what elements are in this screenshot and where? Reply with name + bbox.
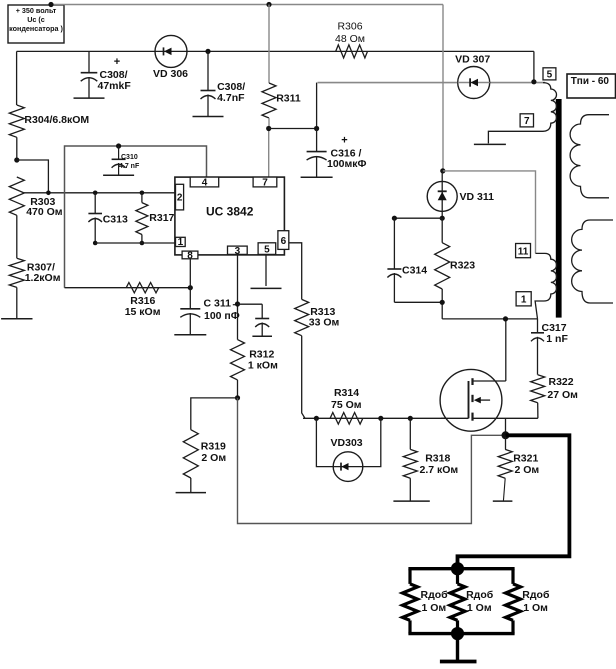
capacitor C316/100мкФ [301, 129, 367, 178]
svg-text:R312: R312 [249, 348, 274, 360]
svg-text:6: 6 [281, 236, 287, 247]
wire IC pin 8 drop [189, 259, 191, 288]
wire thick source to shunt [458, 435, 570, 568]
svg-text:C313: C313 [103, 213, 128, 225]
svg-text:4: 4 [202, 178, 208, 189]
resistor R312 [231, 340, 279, 398]
svg-text:R319: R319 [201, 441, 226, 453]
transformer winding 11-1 [535, 253, 557, 319]
svg-text:R323: R323 [450, 260, 475, 272]
transformer core [556, 99, 562, 318]
svg-text:R304/6.8кОМ: R304/6.8кОМ [24, 114, 89, 126]
node junction pin 8 / C311 [188, 285, 193, 290]
capacitor C317 [531, 319, 568, 375]
ground R318 [393, 500, 429, 502]
svg-text:VD 306: VD 306 [153, 68, 188, 80]
svg-text:Тпи - 60: Тпи - 60 [571, 76, 610, 87]
transistor MOSFET VT [440, 369, 538, 431]
wire current sense loop [238, 398, 506, 524]
ground R307 [1, 318, 32, 320]
svg-text:+ 350 вольт: + 350 вольт [16, 6, 57, 15]
resistor R317 [136, 191, 175, 246]
svg-text:1 Ом: 1 Ом [467, 602, 492, 614]
svg-text:48 Ом: 48 Ом [335, 33, 365, 45]
node junction VD307 / winding pin 5 [531, 79, 536, 84]
node junction top rail / R311 branch [266, 2, 271, 7]
svg-text:7: 7 [262, 178, 268, 189]
wire left supply rail [17, 50, 534, 52]
capacitor C308/4.7nF [193, 51, 246, 116]
resistor R304 [9, 105, 89, 160]
node junction R311/C316/pin7 [266, 126, 271, 131]
wire IC pin 3 drop [237, 254, 239, 339]
svg-text:8: 8 [187, 250, 193, 261]
wire R316 rail [65, 287, 191, 289]
svg-text:Rдоб: Rдоб [421, 589, 449, 601]
capacitor C313 [88, 191, 128, 246]
diode VD306 [153, 35, 188, 80]
wire +350 drop to VD311 [442, 5, 444, 172]
pin 7 box [520, 114, 533, 127]
svg-text:Uc (с: Uc (с [27, 15, 45, 24]
node junction VD303 right [378, 416, 383, 421]
node junction R312/R319/sense [235, 395, 240, 400]
wire to R319 [191, 398, 238, 430]
resistor R318 [403, 418, 458, 501]
svg-text:2 Ом: 2 Ом [515, 464, 540, 476]
resistor R314 [330, 387, 363, 424]
wire shunt top rail [408, 567, 514, 570]
svg-text:1 nF: 1 nF [546, 333, 568, 345]
wire R304 tap to pin2 rail [17, 160, 49, 193]
wire IC pin 2 rail [24, 192, 176, 194]
wire R306 right drop [533, 51, 535, 81]
resistor R322 [531, 375, 578, 419]
svg-text:4.7 nF: 4.7 nF [119, 163, 140, 170]
diode VD303 [316, 418, 380, 481]
svg-text:2.7 кОм: 2.7 кОм [420, 464, 459, 476]
node junction source sense [502, 431, 510, 439]
svg-text:27 Ом: 27 Ом [547, 389, 578, 401]
svg-text:2: 2 [177, 193, 183, 204]
svg-text:75 Ом: 75 Ом [331, 399, 362, 411]
node junction shunt bottom [451, 627, 464, 640]
svg-text:VD 307: VD 307 [455, 53, 490, 65]
node junction R304-R303 tap [14, 157, 19, 162]
svg-text:7: 7 [524, 116, 530, 127]
svg-text:100 пФ: 100 пФ [204, 310, 240, 322]
svg-text:100мкФ: 100мкФ [327, 158, 367, 170]
resistor R313 [295, 299, 340, 418]
wire junction to C316 [269, 128, 317, 130]
svg-text:R318: R318 [425, 453, 450, 465]
svg-text:C308/: C308/ [100, 69, 128, 81]
svg-text:VD303: VD303 [331, 437, 363, 449]
capacitor C310 [103, 146, 140, 175]
svg-text:R316: R316 [130, 295, 155, 307]
wire VD307 left drop [316, 83, 318, 129]
IC pin 4 [190, 177, 219, 188]
resistor R306 [335, 21, 367, 58]
ground R319 [176, 492, 206, 494]
svg-text:конденсатора ): конденсатора ) [9, 24, 63, 33]
svg-text:15 кОм: 15 кОм [125, 306, 161, 318]
wire pin 4 rail and left loop [65, 146, 207, 288]
node junction VD311 bottom [440, 216, 445, 221]
node junction C316 branch [314, 126, 319, 131]
wire IC pin 6 to R313 [289, 243, 302, 300]
wire C316 node to IC pin 7 [268, 129, 270, 178]
capacitor C314 [387, 218, 442, 302]
node junction +350V box tap [48, 2, 53, 7]
ground primary winding [474, 143, 506, 145]
svg-text:R317: R317 [149, 212, 174, 224]
resistor Rдоб 1 [403, 569, 449, 634]
wire IC pin 5 drop [265, 254, 267, 286]
pin 5 box [543, 68, 556, 81]
svg-text:R311: R311 [276, 92, 301, 104]
IC pin 3 [228, 246, 248, 257]
IC pin 2 [176, 184, 184, 210]
wire gate line [303, 417, 469, 419]
wire VD311 node to pin 11 [443, 171, 536, 254]
svg-text:C 311: C 311 [204, 298, 232, 310]
IC UC3842 body [175, 177, 285, 255]
node junction C310 tap [116, 143, 121, 148]
pin 1 box [516, 292, 531, 306]
node junction VD303 left [314, 416, 319, 421]
svg-text:3: 3 [235, 246, 241, 257]
capacitor C308/47mkF [74, 51, 132, 98]
svg-text:R321: R321 [513, 453, 538, 465]
svg-text:Rдоб: Rдоб [522, 589, 550, 601]
diode VD311 [427, 171, 494, 218]
transformer label Тпи-60 [567, 74, 616, 98]
wire top rail to R311 [268, 5, 270, 84]
resistor R321 [498, 435, 539, 501]
svg-text:1 кОм: 1 кОм [248, 360, 278, 372]
IC pin 6 [278, 231, 289, 250]
transformer secondary winding bottom [572, 220, 613, 303]
svg-text:47mkF: 47mkF [98, 80, 132, 92]
wire drain rail [442, 318, 537, 320]
svg-text:UC 3842: UC 3842 [206, 205, 254, 219]
diode VD307 [455, 53, 490, 98]
transformer secondary winding top [570, 115, 609, 198]
resistor R303 [9, 177, 63, 258]
wire shunt bottom rail [408, 632, 514, 635]
svg-text:1 Ом: 1 Ом [523, 602, 548, 614]
svg-text:Rдоб: Rдоб [466, 589, 494, 601]
svg-text:2 Ом: 2 Ом [201, 452, 226, 464]
transformer primary winding top [488, 83, 556, 144]
IC pin 7 [253, 177, 277, 188]
node junction pin 3 [235, 301, 240, 306]
pin 11 box [516, 244, 531, 258]
capacitor C311 [174, 288, 239, 335]
svg-text:C314: C314 [402, 264, 427, 276]
resistor R316 [125, 283, 161, 319]
ground shunt [440, 634, 477, 662]
node junction tap/pin2 rail [46, 191, 51, 196]
svg-text:1 Ом: 1 Ом [422, 602, 447, 614]
node junction shunt top [451, 562, 464, 575]
node junction drain rail [503, 316, 508, 321]
wire IC pin 1 rail [95, 242, 175, 244]
svg-text:470 Ом: 470 Ом [26, 206, 63, 218]
wire drain [505, 319, 507, 381]
svg-text:11: 11 [518, 246, 529, 257]
svg-text:R322: R322 [549, 376, 574, 388]
IC pin 5 [258, 243, 276, 256]
node junction R318 top [408, 416, 413, 421]
IC pin 8 [182, 250, 198, 261]
wire top +350V rail [51, 4, 443, 6]
svg-text:33 Ом: 33 Ом [309, 316, 340, 328]
resistor Rдоб 3 [506, 569, 550, 634]
svg-text:4.7nF: 4.7nF [217, 92, 245, 104]
svg-text:1.2кОм: 1.2кОм [25, 272, 61, 284]
capacitor C311 second [252, 304, 272, 336]
svg-text:5: 5 [547, 70, 553, 81]
wire to R304 top [16, 51, 18, 105]
resistor R319 [183, 430, 226, 493]
wire VD307 horizontal [318, 82, 546, 84]
IC pin 1 [176, 237, 186, 248]
resistor R323 [435, 218, 476, 319]
resistor Rдоб 2 [450, 569, 494, 634]
svg-text:1: 1 [178, 237, 184, 248]
svg-text:VD 311: VD 311 [460, 191, 495, 203]
ground R321 [493, 500, 513, 502]
svg-text:1: 1 [521, 295, 527, 306]
wire source [505, 418, 507, 435]
ground IC pin 5 [251, 287, 282, 289]
node junction VD311 top [440, 168, 445, 173]
svg-text:R314: R314 [334, 387, 359, 399]
svg-text:C310: C310 [121, 154, 138, 161]
resistor R307 [9, 258, 60, 319]
wire pin3 to cap branch [238, 303, 263, 305]
svg-text:R306: R306 [337, 21, 362, 33]
node junction VD306 output [205, 49, 210, 54]
svg-text:+: + [114, 56, 120, 68]
svg-text:5: 5 [264, 245, 270, 256]
node +350V input box [8, 5, 64, 43]
resistor R311 [262, 83, 301, 129]
wire to C314 [392, 216, 442, 221]
svg-text:+: + [341, 135, 347, 147]
